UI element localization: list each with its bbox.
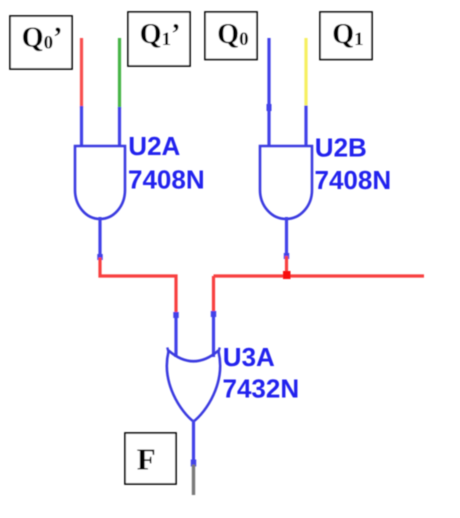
svg-text:7408N: 7408N — [315, 165, 392, 195]
svg-text:U3A: U3A — [223, 342, 275, 372]
svg-text:F: F — [137, 442, 156, 477]
svg-text:7432N: 7432N — [223, 373, 300, 403]
svg-text:Q0’: Q0’ — [22, 22, 63, 53]
svg-text:Q1’: Q1’ — [140, 19, 181, 50]
svg-text:7408N: 7408N — [128, 165, 205, 195]
svg-text:U2B: U2B — [315, 133, 367, 163]
svg-text:U2A: U2A — [128, 131, 180, 161]
